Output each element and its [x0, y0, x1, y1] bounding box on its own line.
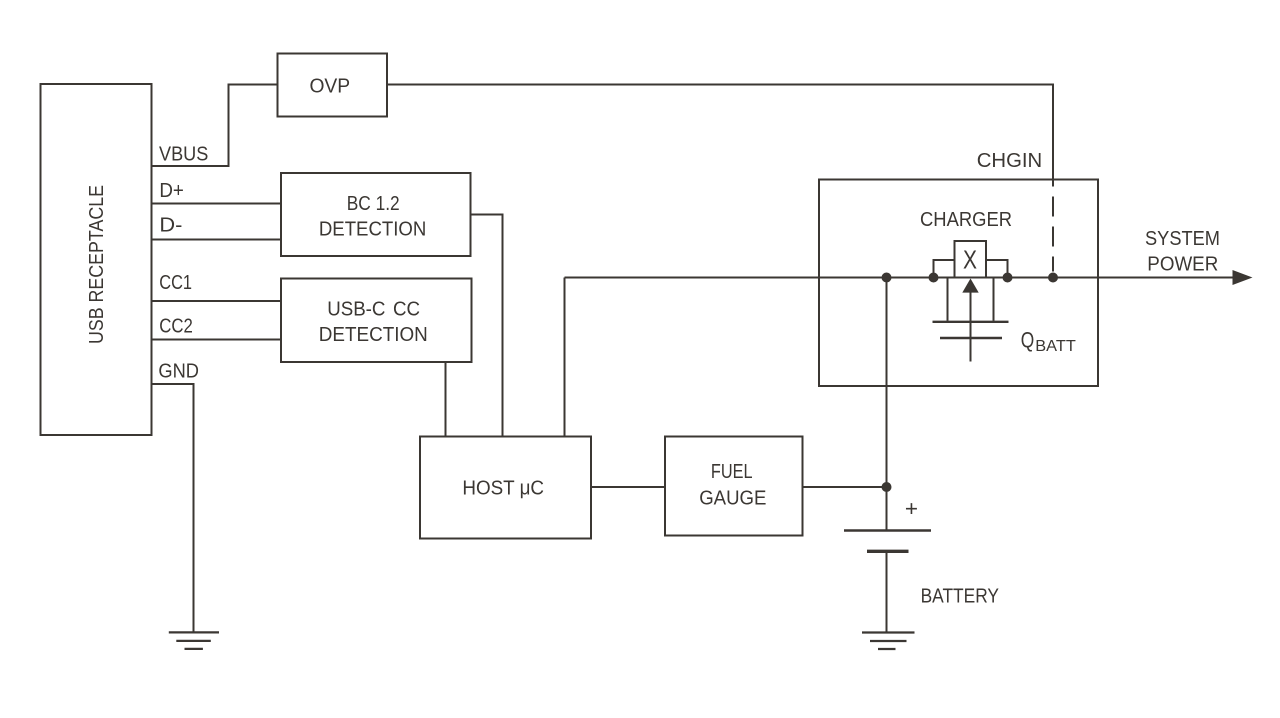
wire D- pin to BC 1.2: [152, 239, 282, 241]
svg-text:GAUGE: GAUGE: [699, 487, 766, 509]
svg-text:X: X: [963, 247, 977, 275]
svg-text:D+: D+: [159, 180, 184, 202]
svg-text:CHARGER: CHARGER: [920, 209, 1012, 231]
wire system power rail: [565, 277, 1236, 279]
system power arrow head: [1233, 270, 1253, 285]
CHARGER block: [819, 180, 1098, 387]
battery positive plate: [844, 529, 931, 532]
wire FUEL GAUGE to battery node: [803, 486, 887, 488]
HOST uC block: [420, 437, 591, 539]
transistor Q_BATT right leg: [993, 278, 995, 321]
node dot on rail at CHGIN: [1048, 273, 1058, 283]
battery negative plate: [867, 550, 909, 553]
wire HOST uC up to system power rail: [564, 278, 566, 437]
transistor Q_BATT gate bar: [940, 337, 1002, 339]
svg-text:POWER: POWER: [1147, 253, 1218, 275]
svg-text:CC2: CC2: [159, 316, 193, 338]
transistor Q_BATT left riser to X box: [934, 260, 955, 278]
ground symbol (battery): [862, 633, 915, 650]
wire CHGIN dashed drop into charger: [1052, 181, 1054, 272]
node dot at battery/fuel-gauge junction: [882, 482, 892, 492]
wire GND pin to ground: [152, 384, 194, 632]
svg-text:DETECTION: DETECTION: [319, 324, 428, 346]
USB-C CC detection block: [281, 279, 472, 363]
svg-text:CC1: CC1: [159, 272, 192, 294]
wire battery minus down to ground: [886, 552, 888, 632]
svg-text:Q: Q: [1021, 327, 1035, 352]
svg-text:USB RECEPTACLE: USB RECEPTACLE: [86, 185, 108, 344]
svg-text:DETECTION: DETECTION: [319, 219, 427, 241]
FUEL GAUGE block: [665, 437, 803, 536]
svg-text:HOST μC: HOST μC: [462, 478, 544, 500]
transistor Q_BATT right riser to X box: [986, 260, 1008, 278]
svg-text:BC 1.2: BC 1.2: [347, 193, 400, 215]
svg-text:OVP: OVP: [309, 76, 350, 98]
svg-text:BATTERY: BATTERY: [921, 585, 999, 607]
wire BC 1.2 output down to HOST uC: [471, 215, 503, 437]
svg-text:FUEL: FUEL: [711, 461, 753, 483]
wire D+ pin to BC 1.2: [152, 203, 282, 205]
ground symbol (USB GND): [169, 632, 219, 649]
transistor Q_BATT left leg: [947, 278, 949, 321]
BC 1.2 detection block: [281, 173, 471, 256]
wire CC1 pin to USB-C CC: [152, 300, 282, 302]
X box (charge switch): [955, 241, 987, 278]
svg-text:CHGIN: CHGIN: [977, 150, 1043, 172]
wire power rail down to battery plus: [886, 278, 888, 530]
svg-text:BATT: BATT: [1035, 338, 1076, 355]
transistor Q_BATT body-diode arrow shaft: [970, 292, 972, 362]
svg-text:SYSTEM: SYSTEM: [1145, 228, 1220, 250]
svg-text:USB-C CC: USB-C CC: [327, 299, 420, 321]
svg-text:D-: D-: [159, 215, 182, 237]
svg-text:+: +: [905, 496, 918, 521]
node dot on rail at battery branch: [882, 273, 892, 283]
svg-text:VBUS: VBUS: [159, 144, 208, 166]
USB receptacle block: [41, 84, 152, 435]
wire OVP output to CHGIN (solid part): [387, 85, 1053, 180]
wire CC2 pin to USB-C CC: [152, 339, 282, 341]
wire USB-C CC output down to HOST uC: [445, 362, 447, 437]
node dot on rail at Q_BATT left: [929, 273, 939, 283]
OVP block: [278, 54, 388, 117]
svg-text:GND: GND: [158, 361, 199, 383]
wire HOST uC to FUEL GAUGE: [591, 486, 665, 488]
node dot on rail at Q_BATT right: [1003, 273, 1013, 283]
transistor Q_BATT arrow head: [962, 279, 978, 293]
transistor Q_BATT top bar: [933, 321, 1009, 323]
wire VBUS pin to OVP input: [152, 85, 278, 167]
